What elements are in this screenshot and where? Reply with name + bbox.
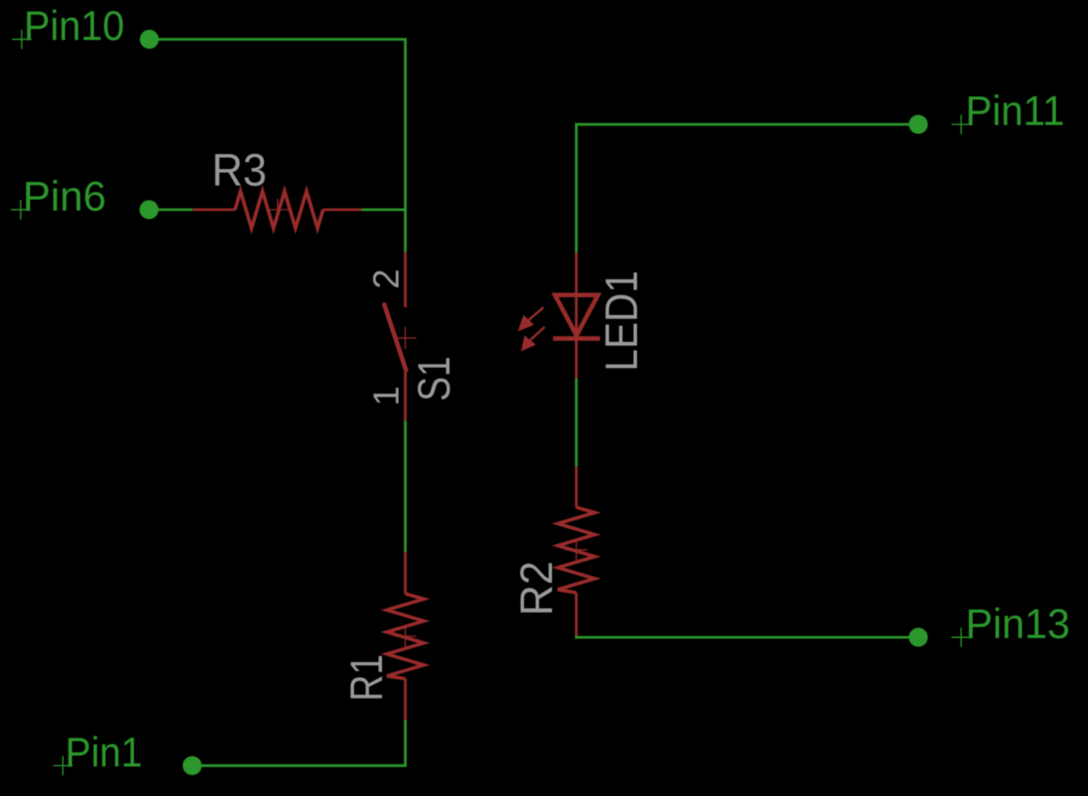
svg-text:R2: R2: [511, 561, 562, 616]
LED light arrow 2: [521, 327, 545, 352]
wire LED1 to R2: [575, 379, 578, 467]
origin cross S1: [394, 337, 416, 339]
lever: [384, 305, 406, 371]
svg-text:LED1: LED1: [596, 271, 647, 372]
resistor R1: [387, 552, 424, 720]
pin origin cross Pin10: [12, 30, 32, 50]
pin origin cross Pin6: [11, 200, 31, 220]
svg-text:R3: R3: [212, 145, 267, 196]
wire Pin6 to R3: [149, 208, 193, 211]
pin origin cross Pin1: [53, 756, 72, 776]
svg-text:Pin6: Pin6: [23, 173, 107, 220]
junction dot Pin11: [909, 115, 928, 134]
center line through triangle: [575, 296, 578, 339]
pin 2 lead: [404, 252, 407, 307]
junction dot Pin10: [140, 30, 159, 49]
anode lead: [575, 253, 578, 296]
wire S1 to R1: [404, 421, 407, 553]
pin 1 lead: [404, 371, 407, 421]
svg-text:Pin13: Pin13: [966, 600, 1071, 647]
junction dot Pin13: [909, 628, 928, 647]
triangle: [555, 295, 598, 336]
svg-text:Pin10: Pin10: [24, 2, 125, 49]
svg-text:2: 2: [366, 269, 407, 289]
pin origin cross Pin11: [951, 115, 971, 135]
svg-text:Pin11: Pin11: [966, 87, 1065, 134]
wire Pin11 to LED1: [576, 124, 918, 253]
wire R2 to Pin13: [576, 636, 918, 637]
wire R1 to Pin1: [192, 720, 405, 766]
cathode bar: [553, 336, 600, 341]
wire R3 to node A: [361, 208, 405, 211]
origin cross R2: [565, 549, 587, 551]
junction dot Pin6: [140, 200, 159, 219]
LED light arrow 1: [518, 307, 544, 331]
junction dot Pin1: [183, 756, 202, 775]
pin origin cross Pin13: [951, 628, 971, 648]
svg-text:R1: R1: [341, 654, 392, 701]
node Pin6 label: [23, 173, 107, 220]
node Pin10 label: [24, 2, 125, 49]
resistor R2: [558, 467, 595, 637]
switch S1: [384, 252, 416, 421]
svg-text:1: 1: [366, 386, 407, 406]
svg-text:Pin1: Pin1: [65, 728, 142, 775]
LED LED1: [553, 253, 600, 379]
cathode lead: [575, 339, 578, 379]
svg-text:S1: S1: [408, 356, 459, 401]
resistor R3: [193, 191, 361, 228]
origin cross R1: [394, 635, 416, 637]
wire Pin10 to node A (top): [149, 39, 405, 252]
